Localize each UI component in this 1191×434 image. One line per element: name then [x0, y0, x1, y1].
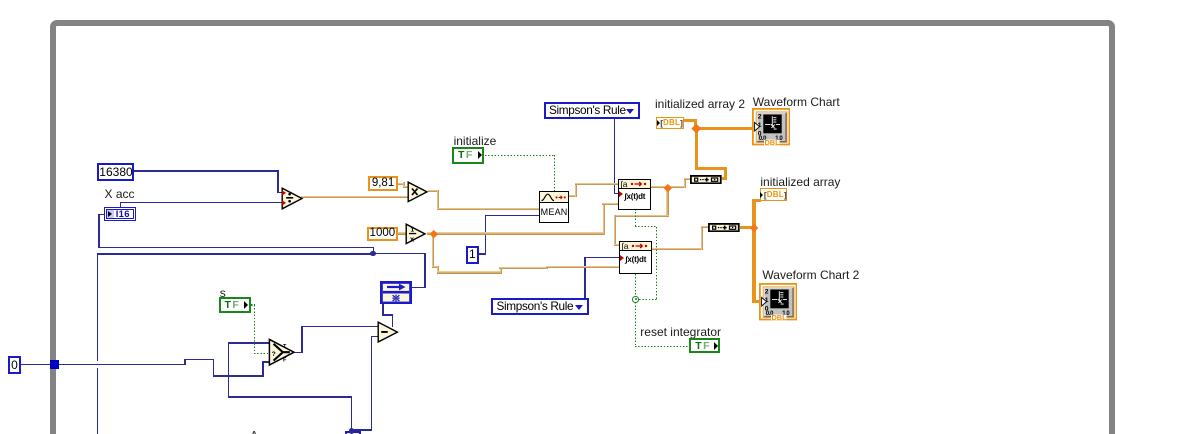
array wire BA2 out: [740, 226, 756, 229]
wire junction to feedback right: [374, 253, 426, 255]
boolean constant reset integrator: [689, 338, 720, 353]
wire MEAN out up: [575, 183, 577, 198]
wire select out up: [301, 326, 303, 354]
array wire down to chart 2: [752, 226, 755, 303]
wire jog a: [432, 266, 439, 268]
feedback node: [380, 281, 412, 304]
MEAN function: [539, 191, 570, 223]
wire bottom junction link: [351, 429, 372, 431]
wire 1000 out: [398, 232, 407, 234]
junction dot X acc: [370, 251, 375, 256]
wire SR1 down: [614, 119, 616, 194]
wire feedback init right: [382, 314, 393, 316]
wire feedback initializer down: [382, 304, 384, 316]
wire into divide x input: [277, 192, 283, 194]
array wire up to DBL1: [694, 119, 697, 130]
svg-text:2: 2: [765, 289, 769, 296]
wire X acc branch down: [98, 214, 100, 247]
wire X acc branch right: [98, 247, 374, 249]
loop tunnel: [50, 360, 59, 368]
wire into build array 1: [684, 178, 691, 180]
wire 9,81 out: [398, 183, 405, 185]
divide function: [281, 187, 305, 211]
array wire to chart 1: [695, 127, 753, 130]
array wire into DBL1: [683, 119, 697, 122]
svg-text:F: F: [283, 358, 287, 364]
wire 1/x up to integrator dt: [603, 203, 605, 234]
svg-text:DBL: DBL: [771, 313, 787, 320]
coercion dot integral 2: [620, 255, 624, 261]
wire 1 const right: [479, 253, 487, 255]
wire SR1 into integrator: [614, 193, 619, 195]
wire MEAN out: [569, 195, 577, 197]
wire tunnel to select: [59, 364, 186, 366]
label initialize: [454, 134, 497, 148]
boolean wire top jog: [635, 226, 658, 227]
array wire BA1 out: [722, 177, 728, 180]
wire X acc up: [120, 202, 122, 207]
wire select T input: [228, 342, 270, 344]
wire up to build array 1: [684, 178, 686, 189]
array wire up to DBL2: [752, 199, 755, 229]
array indicator initialized array 2: [656, 117, 684, 129]
numeric constant 1000: [367, 227, 398, 241]
wire left branch down upper: [97, 253, 99, 361]
junction array bottom: [750, 223, 759, 232]
enum constant Simpson's Rule 1: [544, 102, 640, 119]
boolean wire reset left: [635, 346, 689, 347]
array wire into DBL2: [752, 199, 760, 202]
svg-text:2: 2: [758, 114, 762, 121]
numeric constant 9,81: [368, 176, 397, 191]
wire subtract y input up: [371, 336, 373, 432]
wire 1/x branch down: [432, 233, 434, 268]
label Waveform Chart 2: [762, 268, 859, 282]
wire integrator1 out: [651, 186, 686, 188]
label Waveform Chart: [753, 95, 840, 109]
build array 2: [708, 223, 740, 232]
junction dot bottom: [349, 428, 355, 434]
numeric constant 1: [466, 246, 479, 265]
wire select T down: [228, 342, 230, 398]
wire 0 const to tunnel: [21, 364, 50, 366]
build array 1: [690, 175, 722, 184]
wire into integrator2 top: [614, 244, 620, 246]
wire along bottom: [213, 375, 264, 377]
partial label A: [250, 428, 259, 434]
wire along d: [499, 267, 548, 269]
wire jog up: [184, 359, 186, 366]
coercion dot integral 1: [619, 191, 623, 197]
label initialized array 2: [655, 97, 745, 111]
multiply function: [407, 181, 430, 204]
wire left branch down lower: [97, 368, 99, 434]
wire into integrator dt: [602, 203, 619, 205]
wire step up c: [500, 267, 502, 273]
svg-text:1: 1: [411, 226, 415, 233]
wire 9,81 into multiply: [403, 186, 409, 188]
boolean wire reset up: [635, 299, 636, 347]
wire 1 into MEAN: [485, 215, 540, 217]
wire up to build array 2: [701, 226, 703, 250]
label X acc: [105, 187, 135, 201]
wire into select F input: [262, 361, 270, 363]
boolean wire initialize down: [554, 155, 555, 191]
wire junction left: [98, 253, 373, 255]
wire SR2 up: [584, 257, 586, 298]
boolean wire up right branch: [656, 227, 657, 300]
junction integrator1 out: [664, 183, 672, 191]
wire integrator2 out: [652, 248, 704, 250]
integral function 1: [618, 179, 651, 209]
wire multiply down: [437, 190, 439, 210]
svg-text:?: ?: [272, 351, 276, 358]
numeric constant 16380: [97, 163, 134, 181]
wire down to bottom junction: [351, 396, 353, 431]
wire jog down: [213, 359, 215, 377]
array indicator initialized array: [760, 188, 786, 201]
reciprocal function 1/x: [405, 223, 428, 246]
wire up to select F: [262, 361, 264, 376]
boolean wire s down: [254, 305, 255, 354]
wire SR2 into integrator 2: [584, 257, 620, 259]
boolean wire s into select: [254, 353, 270, 354]
svg-text:T: T: [283, 344, 287, 350]
array wire up to junction: [695, 127, 698, 170]
wire 16380 down: [277, 170, 279, 192]
boolean wire ring to integrator2: [635, 274, 636, 297]
wire MEAN into integrator top: [575, 183, 619, 185]
wire bottom across: [228, 396, 353, 398]
label s: [220, 286, 226, 300]
wire step e: [546, 266, 548, 269]
waveform chart terminal 2: [759, 283, 797, 320]
wire into subtract y: [371, 336, 379, 338]
wire select out: [295, 352, 303, 354]
wire into feedback node right edge: [412, 287, 425, 289]
wire feedback init into subtract: [392, 314, 394, 327]
array wire into chart 2: [752, 300, 759, 303]
boolean junction ring: [632, 296, 639, 303]
control terminal X acc I16: [104, 207, 136, 222]
subtract function: [377, 321, 400, 344]
label initialized array: [760, 175, 840, 189]
boolean wire ring right: [636, 299, 658, 300]
wire select out to subtract x: [301, 326, 378, 328]
wire 9,81 jog: [403, 182, 405, 187]
boolean wire initialize: [485, 155, 555, 156]
wire down to integrator2: [614, 215, 616, 247]
integral function 2: [619, 241, 652, 274]
wire along bottom b: [437, 271, 502, 273]
wire into build array 2: [701, 226, 709, 228]
wire X acc left stub: [98, 214, 104, 216]
label reset integrator: [640, 325, 721, 339]
wire jog b: [437, 266, 439, 274]
boolean wire s right: [251, 304, 256, 305]
wire into integrator2 dt: [546, 266, 620, 268]
wire into MEAN x input: [437, 208, 540, 210]
array wire BA1 up: [724, 167, 727, 180]
numeric constant 0: [8, 356, 21, 374]
boolean wire into integrator1: [635, 209, 636, 226]
wire 1 const up: [485, 215, 487, 255]
wire integrator1 branch down: [666, 186, 668, 217]
junction array top: [692, 124, 701, 133]
boolean constant s: [219, 297, 251, 313]
wire multiply out: [428, 190, 439, 192]
wire 16380 to divide: [134, 170, 279, 172]
select function: [268, 338, 297, 367]
boolean constant initialize: [452, 147, 484, 163]
svg-text:DBL: DBL: [764, 138, 780, 145]
wire back left: [614, 215, 668, 217]
partial node at bottom: [345, 431, 361, 434]
wire divide out to multiply: [301, 196, 408, 198]
wire down to feedback: [424, 253, 426, 289]
waveform chart terminal 1: [752, 108, 790, 145]
enum constant Simpson's Rule 2: [491, 298, 589, 316]
wire X acc to divide y input: [120, 202, 283, 204]
junction 1/x out: [429, 229, 437, 237]
wire jog right: [184, 359, 214, 361]
array wire left: [695, 167, 727, 170]
wire 1/x out: [427, 232, 605, 234]
wire down to junction: [373, 247, 375, 254]
